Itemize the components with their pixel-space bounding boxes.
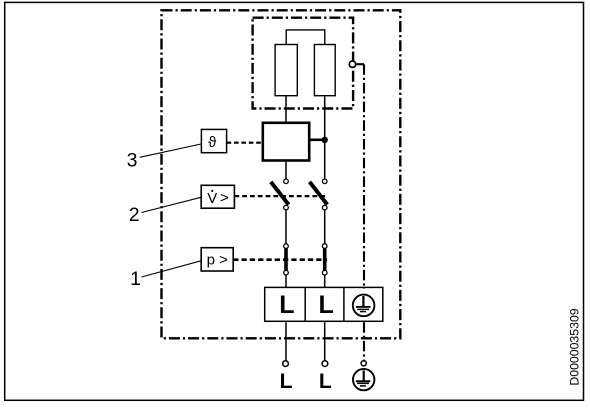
svg-text:p >: p > — [207, 251, 229, 268]
svg-text:1: 1 — [130, 268, 141, 290]
svg-text:L: L — [279, 291, 294, 319]
svg-text:L: L — [319, 370, 332, 393]
svg-text:V: V — [207, 190, 217, 207]
svg-text:L: L — [319, 291, 334, 319]
svg-text:L: L — [280, 370, 293, 393]
svg-text:3: 3 — [127, 149, 138, 171]
svg-text:>: > — [220, 189, 229, 206]
svg-text:D0000035309: D0000035309 — [568, 308, 582, 385]
svg-text:ϑ: ϑ — [208, 134, 217, 151]
svg-text:2: 2 — [129, 204, 140, 226]
